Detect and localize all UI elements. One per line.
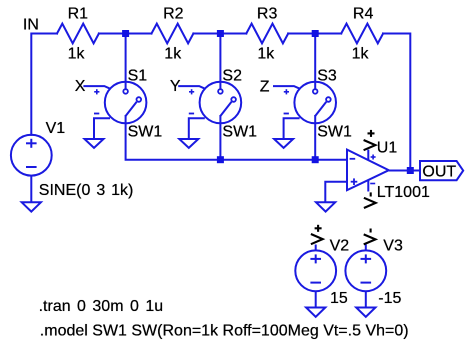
- wire R1 to node A: [99, 33, 152, 35]
- svg-text:SW1: SW1: [317, 124, 352, 141]
- U1 positive supply pin stem: [367, 150, 369, 160]
- svg-text:V3: V3: [383, 238, 403, 255]
- wire X to S1 control +: [83, 86, 109, 88]
- V3 minus marker: [361, 282, 372, 284]
- wire V2 plus pin to flag: [315, 245, 317, 251]
- svg-text:1k: 1k: [68, 46, 86, 63]
- ground at V1: [22, 202, 41, 211]
- junction OUT node: [407, 167, 414, 174]
- svg-text:Y: Y: [170, 78, 181, 95]
- ground at S1 control: [85, 139, 104, 148]
- U1 supply minus marker: [370, 183, 375, 185]
- U1 inverting input marker: [350, 158, 356, 160]
- S3 lever: [315, 102, 326, 116]
- wire R4 to output right rail: [383, 34, 410, 171]
- V1 plus marker: [26, 142, 37, 144]
- svg-text:LT1001: LT1001: [377, 184, 430, 201]
- svg-text:1k: 1k: [257, 46, 275, 63]
- S2 lever: [220, 102, 231, 116]
- wire IN node to R1 (left rail down to V1): [31, 34, 57, 135]
- svg-text:X: X: [75, 78, 86, 95]
- V1 body circle: [11, 135, 52, 176]
- wire S3 control - to ground: [284, 118, 300, 139]
- wire U1 output to OUT port: [389, 170, 420, 172]
- U1 non-inverting input marker: [351, 181, 358, 183]
- junction node B (R2/R3/S2): [217, 30, 224, 37]
- U1 negative supply pin stem: [367, 180, 369, 192]
- svg-text:15: 15: [330, 290, 348, 307]
- V2 minus marker: [310, 282, 321, 284]
- wire ground to U1 non-inverting input: [325, 182, 347, 203]
- V2 plus marker: [310, 258, 321, 260]
- wire node A to S1 top: [125, 34, 127, 90]
- S1 control plus marker: [94, 91, 99, 93]
- svg-text:OUT: OUT: [422, 164, 456, 181]
- svg-text:V1: V1: [46, 120, 66, 137]
- wire node C to S3 top: [314, 34, 316, 90]
- svg-text:.tran 0 30m 0 1u: .tran 0 30m 0 1u: [39, 298, 164, 315]
- wire V3 plus pin to flag: [365, 245, 367, 251]
- ground at U1 non-inverting input: [316, 202, 335, 211]
- resistor R2: [152, 24, 194, 44]
- wire R3 to node C: [288, 33, 341, 35]
- svg-text:SINE(0 3 1k): SINE(0 3 1k): [39, 182, 134, 199]
- op-amp U1: [325, 150, 420, 203]
- wire V3 minus to ground: [365, 291, 367, 307]
- U1 supply plus marker: [371, 156, 376, 158]
- switch S2: [178, 82, 241, 139]
- power flag + (net "+") above U1: [364, 130, 376, 150]
- svg-text:R3: R3: [257, 6, 278, 23]
- S2 body circle: [200, 82, 242, 124]
- resistor R1: [57, 24, 99, 44]
- ground at V3: [356, 308, 375, 317]
- wire S1 control - to ground: [94, 118, 110, 139]
- svg-text:U1: U1: [377, 139, 398, 156]
- switch S3: [273, 82, 336, 139]
- voltage source V1: [11, 135, 52, 203]
- S2 control minus marker: [189, 113, 194, 115]
- svg-text:-15: -15: [378, 290, 401, 307]
- svg-text:.model SW1 SW(Ron=1k Roff=100M: .model SW1 SW(Ron=1k Roff=100Meg Vt=.5 V…: [40, 323, 409, 340]
- wire bottom summing rail S1 to op-amp inverting input: [126, 116, 347, 160]
- ground at V2: [306, 308, 325, 317]
- wire Z to S3 control +: [273, 86, 299, 88]
- S3 body circle: [294, 82, 336, 124]
- svg-text:IN: IN: [23, 16, 39, 33]
- S1 throw contact: [137, 97, 142, 102]
- junction node C (R3/R4/S3): [312, 30, 319, 37]
- svg-text:V2: V2: [330, 238, 350, 255]
- svg-text:R4: R4: [353, 6, 374, 23]
- S3 top contact pin 1: [313, 89, 318, 94]
- wire R2 to node B: [193, 33, 246, 35]
- S2 control plus marker: [189, 91, 194, 93]
- wire S2 control - to ground: [189, 118, 205, 139]
- S1 lever: [125, 102, 136, 116]
- junction summing rail at S3: [312, 156, 319, 163]
- S3 throw contact: [326, 97, 331, 102]
- wire V2 minus to ground: [315, 291, 317, 307]
- U1 triangle body: [347, 150, 389, 191]
- svg-text:1k: 1k: [164, 46, 182, 63]
- power flag - (net "-") below U1: [364, 192, 376, 208]
- ground at S2 control: [179, 139, 198, 148]
- wire node B to S2 top: [219, 34, 221, 90]
- svg-text:R2: R2: [163, 6, 184, 23]
- V3 plus marker: [361, 258, 372, 260]
- V3 body circle: [345, 250, 386, 291]
- svg-text:SW1: SW1: [128, 124, 163, 141]
- S1 body circle: [105, 82, 147, 124]
- wire S2 bottom to summing rail: [219, 116, 221, 160]
- resistor R3: [246, 24, 288, 44]
- switch S1: [83, 82, 146, 139]
- svg-text:S3: S3: [317, 68, 337, 85]
- S1 top contact pin 1: [123, 89, 128, 94]
- wire S3 bottom to summing rail: [314, 116, 316, 160]
- wire Y to S2 control +: [178, 86, 204, 88]
- S1 control minus marker: [94, 113, 99, 115]
- power flag - (net "-") above V3: [364, 229, 376, 245]
- ground at S3 control: [274, 139, 293, 148]
- V1 minus marker: [26, 166, 37, 168]
- S2 throw contact: [231, 97, 236, 102]
- power flag + (net "+") above V2: [311, 225, 323, 244]
- S2 top contact pin 1: [218, 89, 223, 94]
- S3 control minus marker: [284, 113, 289, 115]
- svg-text:S2: S2: [222, 68, 242, 85]
- voltage source V3: [345, 245, 386, 308]
- svg-text:S1: S1: [128, 68, 148, 85]
- svg-text:1k: 1k: [352, 46, 370, 63]
- OUT port flag: [420, 161, 463, 180]
- S3 control plus marker: [284, 91, 289, 93]
- junction node A (R1/R2/S1): [122, 30, 129, 37]
- junction summing rail at S2: [217, 156, 224, 163]
- V2 body circle: [295, 250, 336, 291]
- wire V1 minus to ground: [30, 176, 32, 203]
- voltage source V2: [295, 245, 336, 308]
- svg-text:SW1: SW1: [222, 124, 257, 141]
- svg-text:R1: R1: [68, 6, 89, 23]
- resistor R4: [341, 24, 383, 44]
- svg-text:Z: Z: [260, 79, 270, 96]
